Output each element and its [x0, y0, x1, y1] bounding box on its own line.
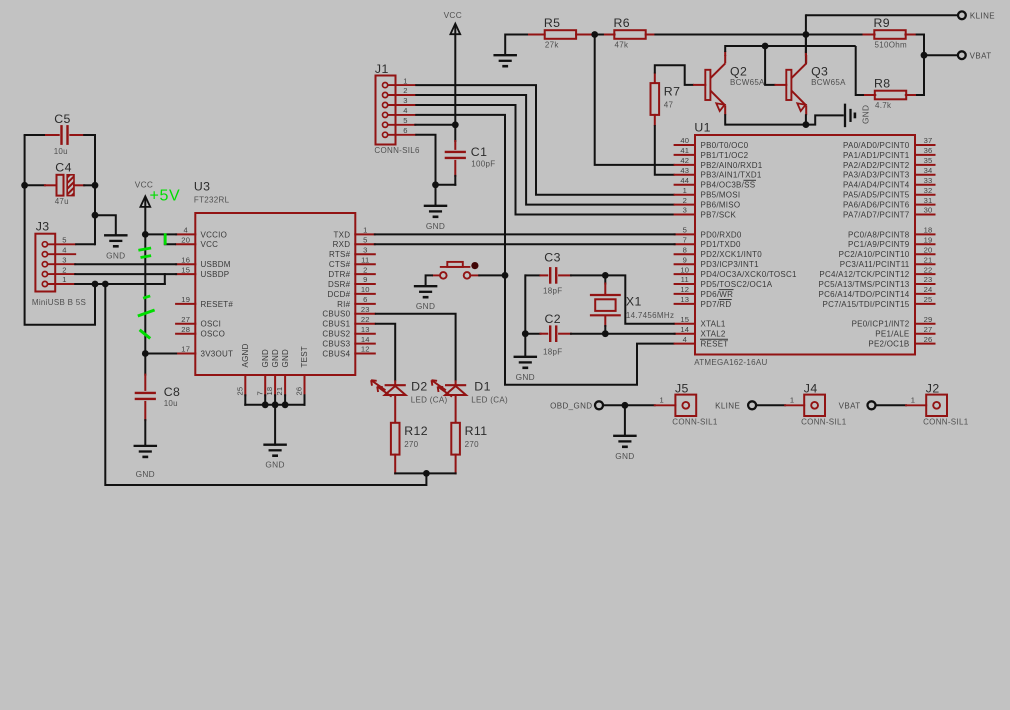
svg-text:C4: C4 [55, 161, 72, 175]
svg-text:2: 2 [62, 265, 66, 274]
svg-text:27: 27 [181, 315, 190, 324]
svg-text:23: 23 [361, 305, 370, 314]
svg-text:X1: X1 [626, 295, 642, 309]
svg-text:19: 19 [924, 236, 933, 245]
svg-text:R11: R11 [465, 424, 488, 438]
svg-text:7: 7 [683, 236, 687, 245]
svg-text:GND: GND [265, 460, 284, 470]
svg-text:18: 18 [265, 387, 274, 396]
svg-text:USBDP: USBDP [201, 270, 230, 279]
svg-text:TEST: TEST [300, 346, 309, 367]
svg-text:510Ohm: 510Ohm [875, 41, 908, 50]
svg-text:47k: 47k [615, 41, 629, 50]
svg-text:C5: C5 [54, 112, 71, 126]
svg-text:14: 14 [361, 335, 370, 344]
svg-text:1: 1 [403, 76, 407, 85]
svg-text:2: 2 [363, 265, 367, 274]
svg-text:GND: GND [261, 349, 270, 368]
svg-text:FT232RL: FT232RL [194, 196, 230, 205]
svg-text:9: 9 [363, 275, 367, 284]
svg-text:32: 32 [924, 186, 933, 195]
svg-text:DSR#: DSR# [328, 280, 351, 289]
svg-text:CONN-SIL6: CONN-SIL6 [374, 146, 420, 155]
svg-text:1: 1 [62, 275, 66, 284]
svg-text:RTS#: RTS# [329, 250, 351, 259]
svg-text:13: 13 [361, 325, 370, 334]
svg-text:15: 15 [680, 315, 689, 324]
svg-text:RESET#: RESET# [201, 300, 234, 309]
svg-text:27: 27 [924, 325, 933, 334]
svg-text:U3: U3 [194, 180, 211, 194]
svg-text:LED (CA): LED (CA) [471, 395, 508, 404]
svg-text:270: 270 [404, 440, 418, 449]
svg-text:GND: GND [271, 349, 280, 368]
svg-text:OBD_GND: OBD_GND [550, 401, 592, 410]
svg-text:PB0/T0/OC0: PB0/T0/OC0 [701, 141, 749, 150]
svg-text:PD5/TOSC2/OC1A: PD5/TOSC2/OC1A [701, 280, 773, 289]
svg-text:PC3/A11/PCINT11: PC3/A11/PCINT11 [840, 260, 910, 269]
svg-text:VCC: VCC [444, 10, 462, 20]
svg-text:CBUS3: CBUS3 [322, 340, 350, 349]
svg-text:10u: 10u [54, 147, 68, 156]
svg-text:USBDM: USBDM [201, 260, 231, 269]
svg-text:12: 12 [361, 345, 370, 354]
svg-text:10: 10 [361, 285, 370, 294]
svg-text:PD6/WR: PD6/WR [701, 290, 734, 299]
svg-text:PA4/AD4/PCINT4: PA4/AD4/PCINT4 [843, 181, 910, 190]
svg-text:OSCI: OSCI [201, 320, 222, 329]
svg-text:AGND: AGND [241, 343, 250, 367]
svg-text:PB1/T1/OC2: PB1/T1/OC2 [701, 151, 749, 160]
svg-text:PC4/A12/TCK/PCINT12: PC4/A12/TCK/PCINT12 [819, 270, 909, 279]
svg-text:43: 43 [680, 166, 689, 175]
svg-text:42: 42 [680, 156, 689, 165]
svg-text:1: 1 [790, 395, 794, 404]
svg-text:D1: D1 [474, 380, 491, 394]
svg-text:5: 5 [683, 226, 687, 235]
svg-text:7: 7 [255, 391, 264, 395]
svg-text:J4: J4 [804, 382, 818, 396]
svg-text:C3: C3 [544, 250, 561, 264]
svg-text:J3: J3 [36, 220, 50, 234]
svg-text:PB3/AIN1/TXD1: PB3/AIN1/TXD1 [701, 171, 762, 180]
svg-text:3: 3 [683, 206, 687, 215]
svg-text:GND: GND [136, 469, 155, 479]
svg-text:11: 11 [681, 275, 689, 284]
svg-text:PA5/AD5/PCINT5: PA5/AD5/PCINT5 [843, 191, 910, 200]
svg-text:VCCIO: VCCIO [201, 230, 228, 239]
svg-text:4: 4 [683, 335, 687, 344]
svg-text:R12: R12 [404, 424, 428, 438]
svg-text:6: 6 [403, 126, 407, 135]
svg-text:GND: GND [516, 372, 535, 382]
svg-text:18: 18 [924, 226, 933, 235]
svg-text:PC0/A8/PCINT8: PC0/A8/PCINT8 [848, 230, 910, 239]
svg-text:13: 13 [680, 295, 689, 304]
svg-text:5: 5 [403, 116, 407, 125]
svg-text:10u: 10u [164, 399, 178, 408]
svg-text:GND: GND [416, 301, 435, 311]
svg-text:18pF: 18pF [543, 287, 562, 296]
svg-text:GND: GND [861, 105, 871, 124]
svg-text:D2: D2 [411, 380, 428, 394]
svg-text:30: 30 [924, 206, 933, 215]
svg-text:PC5/A13/TMS/PCINT13: PC5/A13/TMS/PCINT13 [819, 280, 910, 289]
svg-text:16: 16 [181, 255, 190, 264]
svg-text:14.7456MHz: 14.7456MHz [626, 311, 674, 320]
svg-text:26: 26 [295, 387, 304, 396]
svg-text:PC2/A10/PCINT10: PC2/A10/PCINT10 [839, 250, 910, 259]
svg-text:R8: R8 [874, 77, 891, 91]
svg-text:PE0/ICP1/INT2: PE0/ICP1/INT2 [852, 320, 910, 329]
svg-text:47: 47 [664, 101, 674, 110]
svg-text:PD3/ICP3/INT1: PD3/ICP3/INT1 [701, 260, 760, 269]
svg-text:1: 1 [659, 395, 663, 404]
svg-text:4: 4 [403, 106, 407, 115]
svg-text:CTS#: CTS# [329, 260, 351, 269]
svg-text:RI#: RI# [337, 300, 351, 309]
svg-text:DTR#: DTR# [328, 270, 350, 279]
svg-text:CONN-SIL1: CONN-SIL1 [923, 418, 969, 427]
svg-text:11: 11 [361, 255, 369, 264]
svg-text:20: 20 [181, 236, 190, 245]
svg-text:4: 4 [62, 245, 66, 254]
svg-text:PD2/XCK1/INT0: PD2/XCK1/INT0 [701, 250, 763, 259]
svg-text:GND: GND [106, 250, 125, 260]
svg-text:19: 19 [181, 295, 190, 304]
svg-text:C2: C2 [545, 312, 562, 326]
svg-text:22: 22 [361, 315, 370, 324]
svg-text:270: 270 [465, 440, 479, 449]
svg-text:20: 20 [924, 245, 933, 254]
svg-text:R7: R7 [664, 85, 681, 99]
svg-text:3: 3 [62, 255, 66, 264]
svg-text:PE2/OC1B: PE2/OC1B [868, 340, 909, 349]
svg-text:3: 3 [363, 245, 367, 254]
svg-text:VBAT: VBAT [970, 51, 992, 60]
svg-text:KLINE: KLINE [715, 401, 740, 410]
svg-text:25: 25 [924, 295, 933, 304]
svg-text:37: 37 [924, 136, 933, 145]
svg-text:36: 36 [924, 146, 933, 155]
svg-text:PB7/SCK: PB7/SCK [701, 210, 737, 219]
svg-text:CBUS4: CBUS4 [322, 349, 350, 358]
svg-text:40: 40 [680, 136, 689, 145]
svg-text:15: 15 [181, 265, 190, 274]
svg-text:33: 33 [924, 176, 933, 185]
svg-text:BCW65A: BCW65A [811, 78, 846, 87]
svg-text:18pF: 18pF [543, 347, 562, 356]
svg-text:PB2/AIN0/RXD1: PB2/AIN0/RXD1 [701, 161, 763, 170]
svg-text:KLINE: KLINE [970, 11, 995, 20]
svg-text:C1: C1 [471, 145, 488, 159]
svg-text:2: 2 [683, 196, 687, 205]
svg-text:3: 3 [403, 96, 407, 105]
svg-text:R9: R9 [874, 16, 891, 30]
svg-text:24: 24 [924, 285, 933, 294]
svg-text:J5: J5 [675, 382, 689, 396]
svg-text:PA6/AD6/PCINT6: PA6/AD6/PCINT6 [843, 201, 910, 210]
svg-text:PD4/OC3A/XCK0/TOSC1: PD4/OC3A/XCK0/TOSC1 [701, 270, 797, 279]
svg-text:J1: J1 [375, 62, 389, 76]
svg-text:CONN-SIL1: CONN-SIL1 [672, 418, 718, 427]
svg-text:ATMEGA162-16AU: ATMEGA162-16AU [694, 358, 767, 367]
svg-text:9: 9 [683, 255, 687, 264]
svg-text:25: 25 [235, 387, 244, 396]
svg-text:PA0/AD0/PCINT0: PA0/AD0/PCINT0 [843, 141, 910, 150]
svg-text:PB5/MOSI: PB5/MOSI [701, 191, 741, 200]
svg-text:4: 4 [183, 226, 187, 235]
svg-text:VCC: VCC [201, 240, 219, 249]
svg-text:LED (CA): LED (CA) [411, 395, 448, 404]
svg-text:26: 26 [924, 335, 933, 344]
svg-text:17: 17 [181, 345, 190, 354]
svg-text:6: 6 [363, 295, 367, 304]
svg-text:28: 28 [181, 325, 190, 334]
svg-text:5: 5 [62, 236, 66, 245]
svg-text:PB4/OC3B/SS: PB4/OC3B/SS [701, 181, 756, 190]
svg-text:RXD: RXD [333, 240, 351, 249]
svg-text:35: 35 [924, 156, 933, 165]
svg-text:PA3/AD3/PCINT3: PA3/AD3/PCINT3 [843, 171, 910, 180]
svg-text:47u: 47u [55, 197, 69, 206]
svg-text:PE1/ALE: PE1/ALE [875, 330, 909, 339]
svg-text:100pF: 100pF [471, 159, 495, 168]
svg-text:TXD: TXD [334, 230, 351, 239]
svg-text:Q3: Q3 [811, 64, 828, 78]
svg-text:8: 8 [683, 245, 687, 254]
svg-text:BCW65A: BCW65A [730, 78, 765, 87]
svg-text:R5: R5 [544, 16, 561, 30]
svg-text:41: 41 [680, 146, 689, 155]
svg-text:10: 10 [680, 265, 689, 274]
svg-text:PA1/AD1/PCINT1: PA1/AD1/PCINT1 [843, 151, 910, 160]
svg-text:C8: C8 [164, 385, 181, 399]
svg-text:29: 29 [924, 315, 933, 324]
svg-text:CBUS2: CBUS2 [322, 330, 350, 339]
svg-text:PA7/AD7/PCINT7: PA7/AD7/PCINT7 [843, 210, 910, 219]
svg-text:VBAT: VBAT [839, 401, 861, 410]
svg-text:14: 14 [680, 325, 689, 334]
svg-text:GND: GND [615, 451, 634, 461]
svg-text:PD1/TXD0: PD1/TXD0 [701, 240, 742, 249]
svg-text:Q2: Q2 [730, 64, 747, 78]
svg-text:+5V: +5V [150, 188, 181, 205]
svg-text:2: 2 [403, 86, 407, 95]
svg-text:GND: GND [426, 221, 445, 231]
svg-text:12: 12 [680, 285, 689, 294]
svg-text:MiniUSB B 5S: MiniUSB B 5S [32, 298, 86, 307]
svg-text:3V3OUT: 3V3OUT [201, 349, 234, 358]
svg-text:27k: 27k [545, 41, 559, 50]
svg-text:U1: U1 [694, 120, 711, 134]
svg-text:1: 1 [683, 186, 687, 195]
svg-text:4.7k: 4.7k [875, 101, 892, 110]
svg-text:5: 5 [363, 236, 367, 245]
svg-text:22: 22 [924, 265, 933, 274]
svg-text:CBUS0: CBUS0 [322, 310, 350, 319]
svg-text:21: 21 [275, 387, 284, 396]
svg-text:CBUS1: CBUS1 [322, 320, 350, 329]
svg-text:DCD#: DCD# [328, 290, 351, 299]
svg-text:OSCO: OSCO [201, 330, 226, 339]
svg-text:31: 31 [924, 196, 933, 205]
svg-text:PA2/AD2/PCINT2: PA2/AD2/PCINT2 [843, 161, 910, 170]
svg-text:XTAL1: XTAL1 [701, 320, 726, 329]
svg-text:RESET: RESET [701, 340, 729, 349]
svg-text:XTAL2: XTAL2 [701, 330, 726, 339]
svg-text:CONN-SIL1: CONN-SIL1 [801, 418, 847, 427]
svg-text:PD7/RD: PD7/RD [701, 300, 732, 309]
svg-text:R6: R6 [614, 16, 631, 30]
svg-text:1: 1 [911, 395, 915, 404]
svg-text:PC6/A14/TDO/PCINT14: PC6/A14/TDO/PCINT14 [819, 290, 910, 299]
svg-text:PC1/A9/PCINT9: PC1/A9/PCINT9 [848, 240, 910, 249]
svg-text:1: 1 [363, 226, 367, 235]
svg-text:44: 44 [680, 176, 689, 185]
svg-text:PD0/RXD0: PD0/RXD0 [701, 230, 742, 239]
svg-text:23: 23 [924, 275, 933, 284]
svg-text:PC7/A15/TDI/PCINT15: PC7/A15/TDI/PCINT15 [823, 300, 910, 309]
svg-text:J2: J2 [926, 382, 940, 396]
svg-text:21: 21 [924, 255, 933, 264]
svg-text:GND: GND [281, 349, 290, 368]
svg-text:PB6/MISO: PB6/MISO [701, 201, 741, 210]
svg-text:34: 34 [924, 166, 933, 175]
